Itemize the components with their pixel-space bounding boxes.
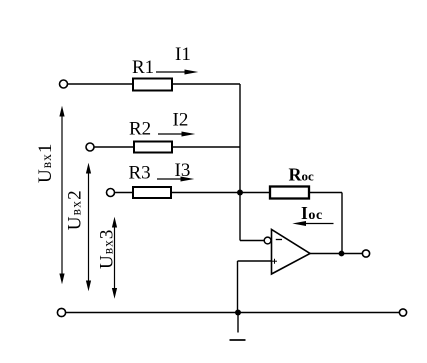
svg-text:I1: I1 <box>175 44 191 65</box>
wire Roc to feedback drop <box>309 192 342 194</box>
svg-text:Rос: Rос <box>289 165 315 185</box>
wire to inverting input <box>240 240 264 242</box>
svg-text:R2: R2 <box>129 119 151 140</box>
node bottom-left terminal <box>57 308 65 316</box>
wire to non-inverting input <box>238 260 272 262</box>
wire input2 to R2 <box>94 146 134 148</box>
plus sign <box>272 259 277 264</box>
voltage arrow Uvx2 <box>86 163 91 291</box>
wire input3 to R3 <box>115 192 134 194</box>
wire vertical bus <box>239 84 241 193</box>
wire R1 to bus <box>172 83 240 85</box>
resistor R1 <box>133 79 172 91</box>
current arrow Ioc <box>292 221 333 226</box>
node bottom-right terminal <box>399 309 406 316</box>
wire non-inverting down to ground bus <box>237 261 239 313</box>
node input terminal 2 <box>86 143 94 151</box>
current arrow I1 <box>156 70 198 75</box>
resistor Roc <box>270 187 309 199</box>
wire input1 to R1 <box>68 83 134 85</box>
minus sign <box>276 239 282 241</box>
svg-text:Uвх1: Uвх1 <box>35 143 56 183</box>
node summing junction <box>237 190 243 196</box>
wire ground bus <box>66 312 400 314</box>
current arrow I3 <box>157 177 194 182</box>
svg-text:I2: I2 <box>173 110 189 131</box>
op-amp U1 <box>272 230 311 275</box>
svg-text:R1: R1 <box>132 57 154 78</box>
svg-text:Uвх2: Uвх2 <box>64 189 85 230</box>
wire R3 to summing node and Roc <box>171 192 270 194</box>
node output terminal <box>362 250 369 257</box>
node input terminal 3 <box>107 189 115 197</box>
node output junction <box>339 251 345 257</box>
inverting input circle <box>264 237 271 244</box>
voltage arrow Uvx3 <box>112 217 117 299</box>
wire R2 to bus <box>172 146 240 148</box>
svg-text:Uвх3: Uвх3 <box>97 229 118 269</box>
resistor R2 <box>134 142 172 153</box>
wire op-amp output <box>310 253 363 255</box>
resistor R3 <box>133 187 171 198</box>
svg-text:Iос: Iос <box>301 203 323 223</box>
node ground junction <box>235 310 241 316</box>
wire summing node down <box>239 193 241 241</box>
current arrow I2 <box>158 132 195 137</box>
node input terminal 1 <box>60 80 68 88</box>
voltage arrow Uvx1 <box>59 106 64 284</box>
svg-text:R3: R3 <box>129 163 151 184</box>
ground <box>230 313 246 341</box>
wire feedback vertical <box>341 193 343 254</box>
